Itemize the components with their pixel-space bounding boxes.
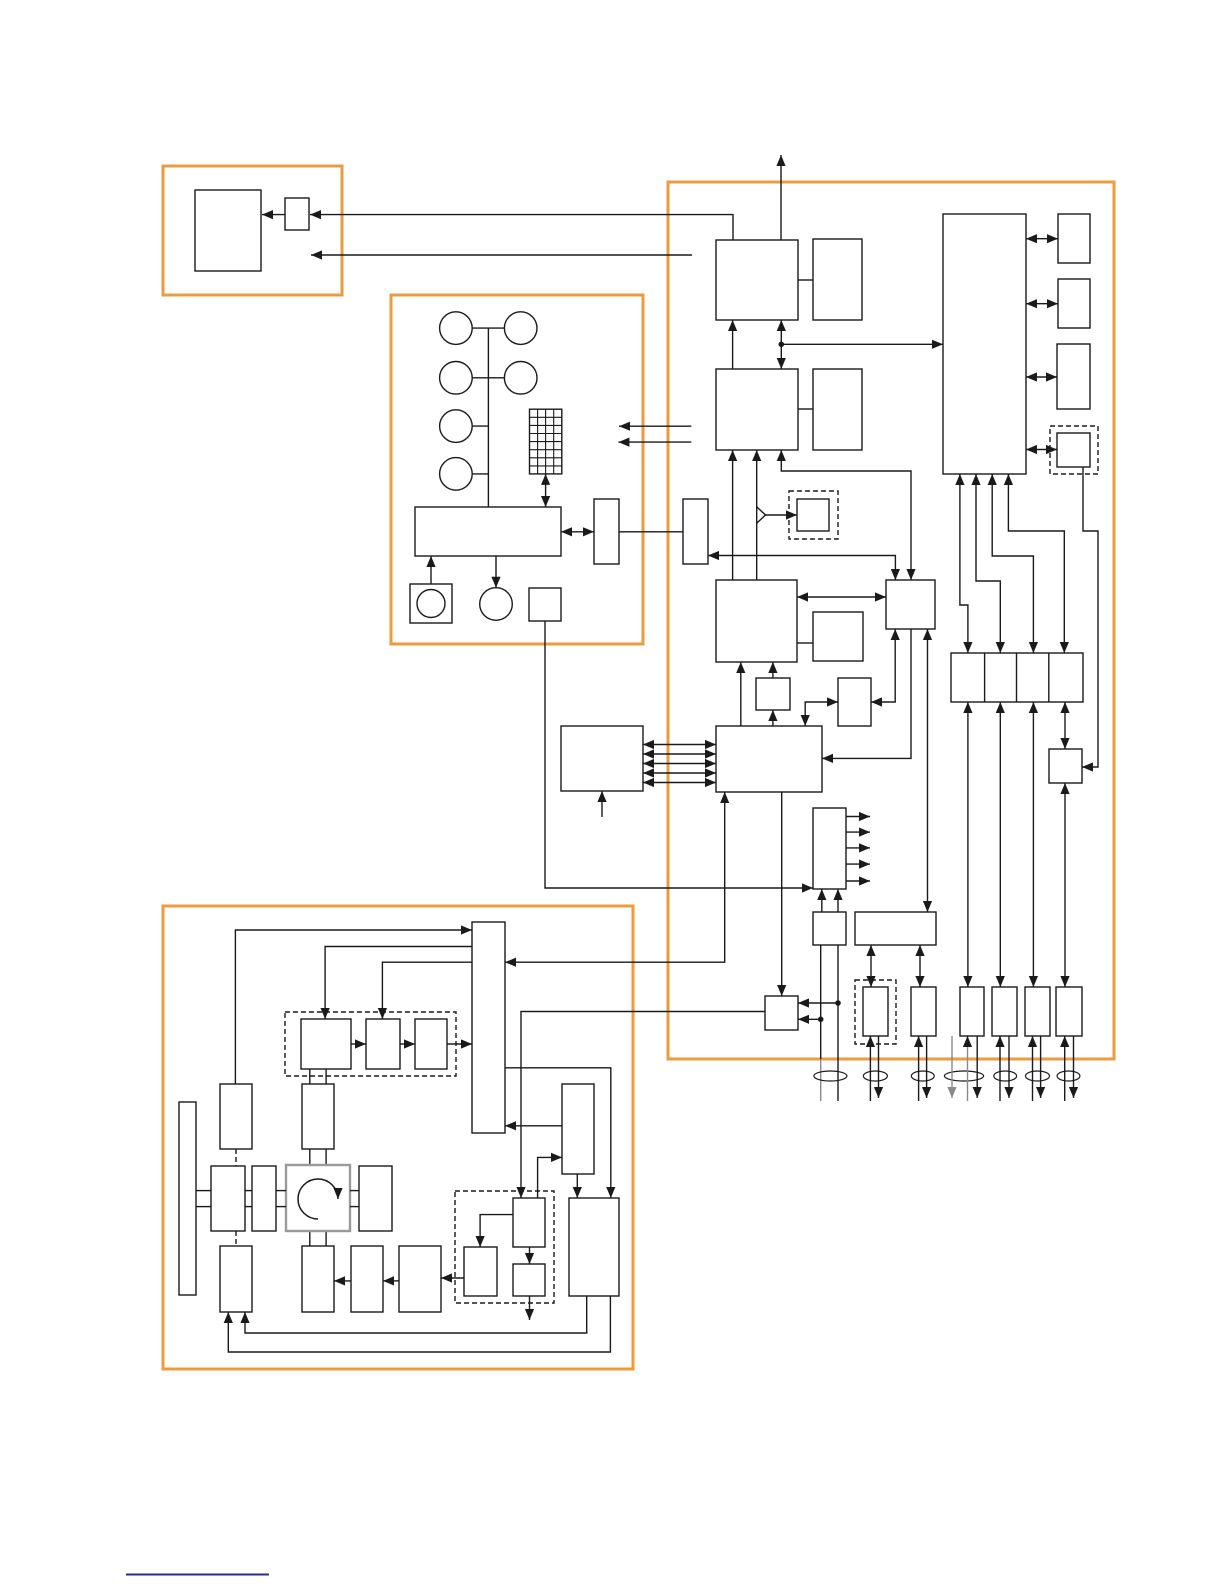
block: CCD sensor grid [530, 409, 562, 474]
wire: Y-branch to connector K [757, 507, 766, 523]
wire: Z-N bus double arrow 3 [643, 763, 716, 765]
wire: W3 cable down arrow [1040, 1036, 1042, 1098]
block: driver group DD (dashed) [285, 1012, 456, 1076]
block: jack V [911, 987, 936, 1036]
wire: C to A arrow [732, 320, 734, 369]
block: clutch circle [480, 588, 513, 621]
wire: AA to N bottom corner (double arrow) [505, 792, 725, 962]
wire: AA to DD2 net [382, 962, 472, 1019]
cable ferrite ellipse 6 [1026, 1071, 1050, 1081]
block: LL3 [513, 1264, 545, 1296]
block: fuser II [302, 1246, 334, 1312]
block: platen FF (tall thin) [179, 1102, 196, 1295]
wire: lamp row 3 [472, 425, 488, 427]
block: controller H [886, 580, 935, 629]
wire: BB1-GG1 dashed link [235, 1149, 237, 1166]
block: scanner lamp circle 2 [504, 312, 537, 345]
wire: U cable down arrow [878, 1036, 880, 1098]
block: roller GG1 [211, 1166, 245, 1231]
block: engine CPU AA (tall) [472, 922, 505, 1133]
block: DD1 [301, 1019, 351, 1069]
wire: W2 cable up arrow [999, 1036, 1001, 1101]
cable ferrite ellipse 1 [814, 1071, 847, 1081]
wire: W4 cable up arrow [1064, 1036, 1066, 1101]
wire: N to M arrow [772, 710, 774, 726]
wire: R line right down [837, 945, 839, 1101]
block: sensor BB2 [220, 1246, 252, 1312]
wire: NN to BB2 net 2 [228, 1296, 610, 1352]
block: line driver row Y [951, 653, 1083, 702]
block: ROM F1 [1058, 214, 1090, 263]
wire: lamp row 4 [472, 473, 488, 475]
wire: AA to DD1 net [325, 947, 472, 1020]
wire: E to Y net 2 (double arrow) [976, 474, 1000, 653]
wire: LL2 to LL3 arrow [529, 1247, 531, 1264]
wire: sensor to laser driver [545, 621, 813, 888]
wire: EE-HH links [309, 1149, 311, 1165]
node: junction right line [835, 1000, 841, 1006]
wire: HH-GG3 links [350, 1190, 359, 1192]
block: jack W2 [992, 987, 1017, 1036]
wire: T sensor net to LL2 [521, 1012, 765, 1199]
wire: Y-X double arrow [1064, 702, 1066, 749]
wire: HH-II links [309, 1231, 311, 1246]
cable ferrite ellipse 3 [911, 1071, 934, 1081]
wire: DD1 to DD2 arrow [351, 1043, 366, 1045]
block: power KK [399, 1246, 441, 1312]
wire: S-V double arrow [919, 945, 921, 987]
wire: E to Y net 3 (double arrow) [992, 474, 1033, 653]
wire: LL2 to MM corner arrow [538, 1157, 562, 1198]
block: driver Q (tall) [813, 808, 846, 889]
wire: Q output arrow 5 [846, 880, 870, 882]
wire: E-F1 double arrow [1026, 238, 1058, 240]
block: scanner lamp circle 1 [440, 312, 473, 345]
wire: N to T arrow down [781, 792, 783, 996]
wire: A-C double arrow [780, 320, 782, 369]
wire: Q output arrow 1 [846, 816, 870, 818]
block: inverter [285, 198, 309, 230]
wire: JJ to II arrow [334, 1280, 351, 1282]
wire: arrow up out of A [780, 155, 782, 240]
wire: CCD to analog processor double arrow [545, 474, 547, 507]
cable ferrite ellipse 2 [863, 1071, 887, 1081]
wire: V cable up arrow [918, 1036, 920, 1101]
block: scanner sensor box [529, 588, 561, 621]
wire: Q output arrow 2 [846, 831, 870, 833]
wire: junction to T arrow upper [798, 1002, 838, 1004]
wire: lamp row 2 [472, 377, 504, 379]
wire: R line left down [820, 945, 822, 1059]
wire: scan in arrow 2 to box2 [618, 441, 691, 443]
block: LCD controller Z [561, 726, 643, 791]
wire: Z-N bus double arrow 4 [643, 772, 716, 774]
block: relay X [1049, 749, 1082, 783]
wire: E to Y net 1 (double arrow) [960, 474, 968, 653]
block: flash F3 [1057, 344, 1090, 409]
block: relay R [813, 912, 846, 945]
node: junction left line [818, 1017, 824, 1023]
wire: motor driver arrow up [430, 556, 432, 584]
block: sensor BB1 [220, 1084, 252, 1149]
block: DD2 [366, 1019, 400, 1069]
group frame: scanner unit (upper middle) [391, 295, 643, 644]
block: LL2 [513, 1198, 545, 1247]
wire: LL1 to KK arrow [441, 1277, 464, 1279]
block: jack W4 [1056, 987, 1082, 1036]
wire: MM to NN arrow [576, 1174, 578, 1198]
wire: E to Y net 4 (double arrow) [1008, 474, 1064, 653]
wire: C to H corner path (double arrow) [781, 450, 911, 580]
wire: I-H double arrow [797, 596, 886, 598]
block: scanner lamp circle 6 [440, 458, 473, 491]
block: main motor HH [286, 1165, 350, 1231]
wire: H-S double arrow [927, 629, 929, 912]
wire: FF-GG1 links [196, 1190, 211, 1192]
wire: bus to CPU E arrow [781, 343, 943, 345]
group frame: engine unit (bottom left) [163, 906, 633, 1369]
wire: stub arrow into Z bottom [601, 791, 603, 817]
cable ferrite ellipse 7 [1057, 1071, 1080, 1081]
wire: W4 cable down arrow [1073, 1036, 1075, 1098]
symbol: motor rotation arc [298, 1179, 338, 1219]
wire: E-F2 double arrow [1026, 303, 1058, 305]
wire: GG2-HH links [276, 1190, 286, 1192]
wire: KK to JJ arrow [383, 1280, 399, 1282]
block: image processor A [716, 240, 798, 320]
wire: LL3 stub arrow down [529, 1296, 531, 1320]
wire: R to Q arrow right [837, 889, 839, 912]
wire: controller to inverter arrow [310, 215, 733, 240]
wire: O to H bottom corner (double arrow) [871, 629, 895, 702]
block: memory L [813, 612, 863, 661]
wire: AA to NN corner net [505, 1068, 611, 1198]
block: sensor group LL (dashed) [455, 1191, 554, 1303]
wire: M to I arrow [772, 662, 774, 678]
wire: E-F3 double arrow [1026, 376, 1057, 378]
cable ferrite ellipse 5 [994, 1071, 1017, 1081]
wire: DD3 to AA arrow [447, 1043, 472, 1045]
wire: lamp bus vertical [487, 328, 489, 507]
block: scanner lamp circle 5 [440, 410, 473, 443]
block: CPU E (tall) [943, 214, 1026, 474]
wire: GG1-GG2 links [245, 1190, 252, 1192]
wire: Y-W2 double arrow [999, 702, 1001, 987]
wire: Y-W1 double arrow [967, 702, 969, 987]
wire: lamp row 1 [472, 327, 504, 329]
wire: GG1-BB2 dashed link [235, 1231, 237, 1246]
block: scanner lamp circle 4 [504, 362, 537, 395]
wire: W1 cable up arrow [967, 1044, 969, 1101]
block: LCD display [195, 190, 261, 271]
wire: Z-N bus double arrow 1 [643, 744, 716, 746]
wire: MM to AA arrow [505, 1125, 562, 1127]
wire: Z-N bus double arrow 5 [643, 782, 716, 784]
wire: analog processor to buffer double arrow [561, 531, 594, 533]
block: modem N [716, 726, 822, 792]
wire: Z-N bus double arrow 2 [643, 753, 716, 755]
block: fuser JJ [351, 1246, 383, 1312]
wire: W1 cable down arrow [976, 1036, 978, 1098]
block: scanner motor (boxed circle) [410, 584, 452, 623]
wire: BB1 to AA arrow [235, 930, 472, 1084]
block: roller GG2 [252, 1166, 276, 1231]
block: jack U (dashed) [855, 980, 896, 1044]
wire: H to N right corner arrow [822, 629, 911, 758]
wire: LL2 to LL1 corner arrow [480, 1215, 513, 1247]
block: DD3 [415, 1019, 447, 1069]
cable ferrite ellipse 4 [944, 1071, 983, 1081]
block: scanner lamp circle 3 [440, 362, 473, 395]
block: option socket G (dashed) [1050, 426, 1098, 474]
block: LL1 [464, 1247, 497, 1296]
block: memory D [813, 369, 862, 450]
wire: Q output arrow 3 [846, 847, 870, 849]
block: regulator MM [562, 1084, 594, 1174]
block: image processor C [716, 369, 798, 450]
wire: U cable up arrow [869, 1036, 871, 1101]
block: buffer M [756, 678, 790, 710]
wire: processor to clutch arrow down [495, 556, 497, 588]
block: controller side receiver [683, 499, 708, 564]
wire: N to I arrow left [740, 662, 742, 726]
block: RAM F2 [1058, 279, 1090, 328]
group frame: main controller PCB (right) [668, 182, 1114, 1059]
wire: E-G double arrow [1026, 449, 1057, 451]
wire: V cable down arrow [926, 1036, 928, 1098]
block: scanner interface buffer [594, 499, 619, 564]
wire: inverter to LCD arrow [262, 214, 285, 216]
wire: gray spare line down arrow [951, 1036, 953, 1098]
group frame: operation panel unit (top left) [163, 166, 342, 295]
block: connector K (dashed) [789, 491, 838, 539]
wire: Y-W3 double arrow [1032, 702, 1034, 987]
wire: R to Q arrow left [821, 889, 823, 912]
wire: DD1-EE links [309, 1069, 311, 1084]
block: sensor T [765, 996, 798, 1030]
block: gear EE [302, 1084, 334, 1149]
wire: N top to O corner (double arrow) [805, 702, 838, 726]
wire: I to C arrow left [732, 450, 734, 580]
block: jack W1 [960, 987, 984, 1036]
wire: A-B link [798, 279, 813, 281]
wire: I to C arrow right with branch [756, 450, 758, 580]
wire: W2 cable down arrow [1008, 1036, 1010, 1098]
wire: I-L link [797, 642, 813, 644]
block: power supply NN [569, 1198, 619, 1296]
block: memory B [813, 239, 862, 320]
footer link rule (blue) [126, 1574, 269, 1576]
block: jack W3 [1025, 987, 1050, 1036]
wire: G to X corner path [1082, 467, 1098, 767]
block: roller GG3 [359, 1166, 392, 1231]
wire: Q output arrow 4 [846, 863, 870, 865]
wire: DD2 to DD3 arrow [400, 1043, 415, 1045]
wire: C-D link [798, 408, 813, 410]
block: NCU S [855, 912, 936, 945]
wire: scan in arrow 1 to box2 [619, 425, 691, 427]
wire: controller to panel arrow [311, 254, 692, 256]
block: codec I [716, 580, 797, 662]
wire: S-U double arrow [870, 945, 872, 987]
block: clock O [838, 678, 871, 726]
node: junction on A-C bus [779, 342, 785, 348]
wire: J2 to H corner path (double arrow) [708, 556, 895, 581]
wire: W3 cable up arrow [1032, 1036, 1034, 1101]
wire: junction to T arrow lower [798, 1018, 821, 1020]
block: analog processor [415, 507, 561, 556]
wire: buffer link [619, 531, 683, 533]
wire: X-W4 double arrow [1064, 783, 1066, 987]
wire: NN to BB2 net 1 [245, 1296, 587, 1333]
